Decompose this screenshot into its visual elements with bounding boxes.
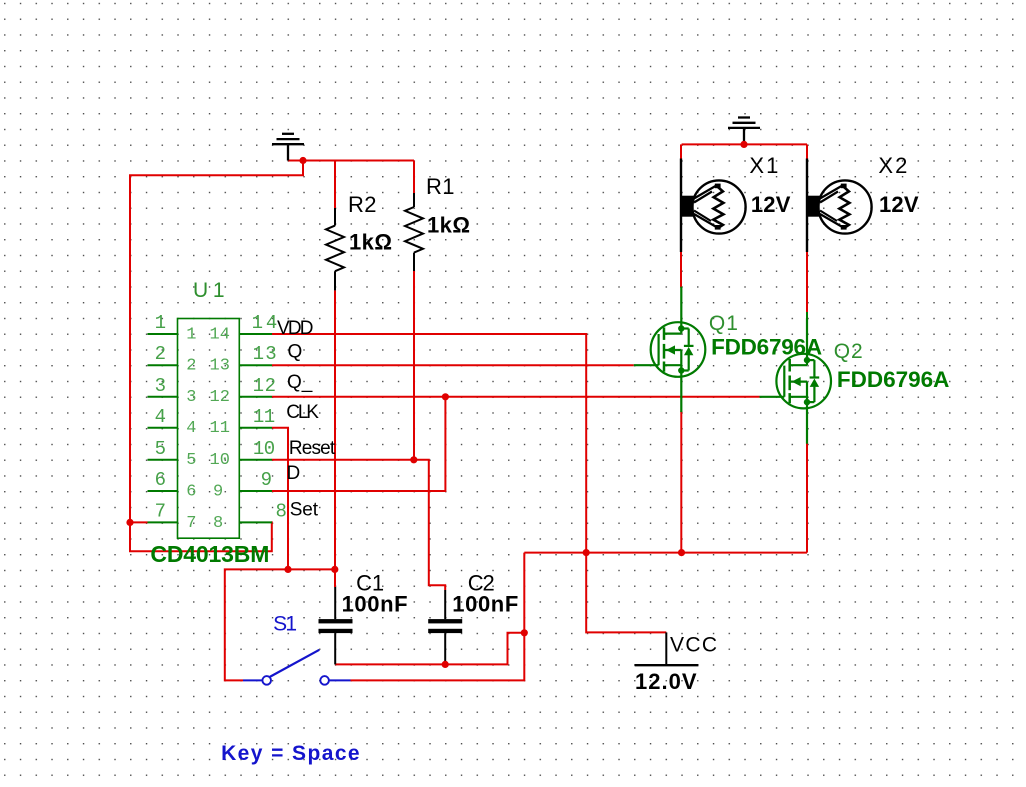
svg-text:11: 11 — [253, 406, 275, 428]
svg-text:3: 3 — [186, 388, 196, 407]
svg-text:1kΩ: 1kΩ — [427, 213, 470, 238]
svg-text:10: 10 — [210, 451, 230, 470]
svg-text:Q2: Q2 — [834, 340, 863, 363]
svg-text:12.0V: 12.0V — [635, 669, 697, 694]
svg-text:1kΩ: 1kΩ — [349, 230, 392, 255]
svg-text:5: 5 — [155, 438, 166, 460]
svg-text:9: 9 — [213, 482, 223, 501]
svg-text:Reset: Reset — [289, 438, 336, 459]
svg-text:6: 6 — [155, 469, 166, 491]
svg-text:D: D — [287, 463, 301, 484]
svg-text:5: 5 — [186, 451, 196, 470]
svg-text:FDD6796A: FDD6796A — [837, 367, 950, 392]
svg-text:Q: Q — [288, 342, 303, 363]
svg-text:12: 12 — [210, 388, 230, 407]
svg-text:R1: R1 — [426, 174, 455, 199]
svg-text:13: 13 — [210, 357, 230, 376]
svg-text:7: 7 — [155, 500, 166, 522]
svg-text:Q1: Q1 — [709, 312, 738, 335]
svg-text:VDD: VDD — [277, 318, 314, 339]
svg-text:12V: 12V — [751, 192, 791, 217]
svg-text:100nF: 100nF — [342, 592, 408, 617]
svg-text:9: 9 — [261, 469, 272, 491]
svg-text:1: 1 — [155, 312, 166, 334]
svg-text:13: 13 — [253, 343, 277, 365]
svg-text:11: 11 — [210, 419, 230, 438]
svg-text:8: 8 — [213, 514, 223, 533]
svg-text:Set: Set — [290, 500, 319, 521]
svg-text:8: 8 — [276, 500, 287, 522]
svg-text:2: 2 — [155, 343, 166, 365]
svg-text:S1: S1 — [273, 613, 297, 636]
svg-text:Q_: Q_ — [287, 372, 313, 393]
svg-text:1: 1 — [186, 325, 196, 344]
svg-text:CLK: CLK — [286, 402, 319, 423]
svg-text:4: 4 — [186, 419, 196, 438]
svg-text:VCC: VCC — [670, 634, 717, 657]
svg-text:4: 4 — [155, 406, 166, 428]
svg-text:14: 14 — [210, 325, 230, 344]
svg-text:10: 10 — [253, 438, 275, 460]
svg-text:3: 3 — [155, 375, 166, 397]
svg-text:CD4013BM: CD4013BM — [150, 541, 269, 567]
svg-text:X1: X1 — [749, 153, 778, 178]
svg-text:12V: 12V — [879, 192, 919, 217]
svg-text:Key = Space: Key = Space — [221, 742, 360, 765]
svg-text:6: 6 — [186, 482, 196, 501]
svg-text:100nF: 100nF — [452, 592, 518, 617]
svg-text:R2: R2 — [348, 192, 377, 217]
svg-text:7: 7 — [186, 514, 196, 533]
svg-text:12: 12 — [253, 375, 276, 397]
svg-text:FDD6796A: FDD6796A — [711, 335, 822, 360]
svg-text:X2: X2 — [878, 153, 907, 178]
svg-text:2: 2 — [186, 357, 196, 376]
